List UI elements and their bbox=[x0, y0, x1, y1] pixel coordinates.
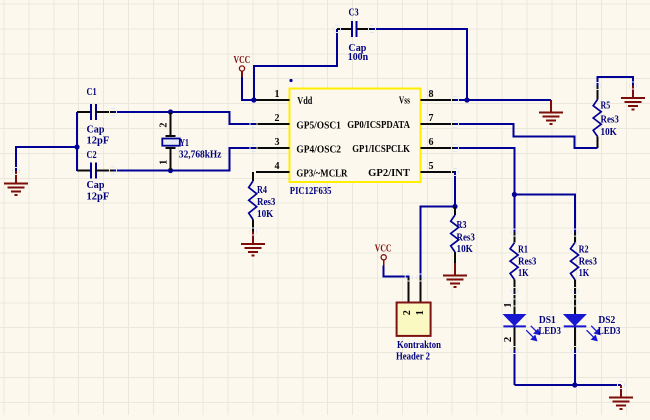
svg-text:1: 1 bbox=[415, 310, 426, 315]
svg-text:GP2/INT: GP2/INT bbox=[368, 168, 410, 179]
svg-text:Vss: Vss bbox=[399, 96, 410, 107]
power port VCC (top) bbox=[234, 55, 251, 77]
svg-text:LED3: LED3 bbox=[598, 326, 621, 337]
C3 left pin stub bbox=[337, 28, 351, 30]
ground (C1/C2 net) bbox=[16, 147, 77, 171]
IC pin 1 stub bbox=[257, 99, 290, 101]
svg-text:2: 2 bbox=[159, 123, 170, 128]
svg-text:2: 2 bbox=[275, 113, 280, 124]
svg-text:Y1: Y1 bbox=[180, 138, 189, 149]
svg-text:Header 2: Header 2 bbox=[396, 352, 430, 363]
wire C1 right stub bbox=[96, 111, 113, 113]
svg-text:Res3: Res3 bbox=[601, 115, 619, 126]
LED DS2 pins bbox=[574, 292, 576, 350]
wire DS2 column bbox=[574, 291, 576, 385]
svg-text:6: 6 bbox=[429, 137, 434, 148]
wire VCC to IC pin 1 bbox=[242, 77, 257, 100]
svg-text:1K: 1K bbox=[579, 268, 590, 279]
LED DS1 arrows bbox=[526, 326, 539, 341]
svg-text:R5: R5 bbox=[601, 101, 611, 112]
wire C2 right stub bbox=[96, 170, 113, 172]
IC pin 7 stub bbox=[421, 123, 455, 125]
R5 top pin bbox=[597, 86, 599, 100]
crystal Y1 body bbox=[162, 139, 180, 146]
svg-text:R3: R3 bbox=[457, 220, 467, 231]
R2 bottom pin bbox=[574, 280, 576, 292]
svg-text:Res3: Res3 bbox=[518, 257, 536, 268]
junction XTAL bottom bbox=[168, 168, 173, 173]
LED DS1 pins bbox=[513, 292, 515, 350]
svg-text:Res3: Res3 bbox=[579, 257, 597, 268]
svg-text:C3: C3 bbox=[349, 8, 359, 19]
svg-text:2: 2 bbox=[402, 310, 413, 315]
svg-text:1: 1 bbox=[159, 160, 170, 165]
R4 bottom pin bbox=[252, 220, 254, 232]
R2 top pin bbox=[574, 233, 576, 243]
R1 bottom pin bbox=[513, 280, 515, 292]
wire IC pin4 corner bbox=[252, 172, 254, 181]
power port VCC (header) bbox=[375, 244, 392, 266]
svg-text:GP3/~MCLR: GP3/~MCLR bbox=[296, 168, 348, 179]
IC pin 5 stub bbox=[421, 171, 455, 173]
resistor R3 bbox=[451, 215, 459, 252]
wire R5 top to ground bbox=[598, 77, 634, 86]
svg-text:4: 4 bbox=[275, 161, 280, 172]
wire to header pin1 bbox=[421, 207, 456, 278]
svg-text:Res3: Res3 bbox=[257, 197, 275, 208]
LED DS1 triangle bbox=[503, 314, 527, 326]
svg-text:R2: R2 bbox=[579, 245, 589, 256]
svg-text:C1: C1 bbox=[87, 87, 97, 98]
svg-text:5: 5 bbox=[429, 161, 434, 172]
wire C1/XTAL top row to IC pin 2 bbox=[113, 112, 256, 124]
wire C1 left stub bbox=[77, 111, 91, 113]
svg-text:3: 3 bbox=[275, 137, 280, 148]
svg-text:100n: 100n bbox=[348, 52, 369, 63]
resistor R2 bbox=[571, 243, 579, 280]
svg-text:GP5/OSC1: GP5/OSC1 bbox=[296, 120, 341, 131]
svg-text:GP4/OSC2: GP4/OSC2 bbox=[296, 144, 341, 155]
svg-text:DS2: DS2 bbox=[598, 315, 615, 326]
IC pin 3 stub bbox=[256, 147, 290, 149]
ground symbol GND3 bbox=[621, 86, 645, 110]
header P1 body bbox=[397, 303, 431, 336]
junction DS2/bottom bbox=[572, 382, 577, 387]
wire Vss to ground bbox=[455, 99, 552, 101]
LED DS2 arrows bbox=[587, 326, 600, 341]
wire C3 left branch bbox=[254, 29, 337, 100]
LED DS1 cathode bar bbox=[503, 325, 526, 327]
svg-text:10K: 10K bbox=[601, 127, 618, 138]
LED DS2 cathode bar bbox=[564, 325, 587, 327]
wire C2 left stub bbox=[77, 170, 91, 172]
junction pin5/R3/header bbox=[452, 204, 457, 209]
marker dot above IC bbox=[289, 79, 292, 82]
R3 bottom pin bbox=[454, 252, 456, 263]
R1 top pin bbox=[513, 233, 515, 243]
header pin stubs bbox=[409, 278, 421, 303]
svg-text:12pF: 12pF bbox=[87, 192, 110, 203]
svg-text:R1: R1 bbox=[518, 245, 528, 256]
svg-text:Res3: Res3 bbox=[457, 233, 475, 244]
svg-text:8: 8 bbox=[429, 89, 434, 100]
ground symbol GND4 bbox=[609, 385, 633, 409]
junction (77,147) bbox=[74, 144, 79, 149]
svg-text:PIC12F635: PIC12F635 bbox=[290, 186, 332, 197]
ground symbol GND6 bbox=[241, 232, 265, 256]
svg-text:10K: 10K bbox=[457, 244, 474, 255]
LED DS2 triangle bbox=[563, 314, 587, 326]
capacitor C1 bbox=[91, 104, 96, 120]
crystal Y1 pins bbox=[166, 112, 176, 171]
wire IC pin7 to R5 bbox=[455, 124, 598, 148]
resistor R1 bbox=[510, 243, 518, 280]
C3 right pin stub bbox=[358, 28, 373, 30]
svg-text:Cap: Cap bbox=[87, 180, 105, 191]
junction R1/R2 branch bbox=[512, 192, 517, 197]
wire branch to R2 bbox=[514, 195, 574, 233]
junction Vss/C3 bbox=[464, 97, 469, 102]
IC pin 4 stub bbox=[256, 171, 290, 173]
resistor R5 bbox=[593, 100, 601, 137]
resistor R4 bbox=[249, 181, 257, 220]
wire C1-C2 vertical bus bbox=[76, 112, 78, 171]
R3 top pin bbox=[454, 207, 456, 216]
IC pin 8 stub bbox=[421, 99, 455, 101]
svg-text:DS1: DS1 bbox=[539, 315, 556, 326]
wire VCC to header pin2 bbox=[384, 266, 409, 278]
svg-text:1K: 1K bbox=[518, 268, 529, 279]
wire C2/XTAL bottom row to IC pin 3 bbox=[113, 148, 256, 171]
svg-text:1: 1 bbox=[275, 89, 280, 100]
ground symbol GND1 bbox=[4, 171, 28, 195]
svg-text:C2: C2 bbox=[87, 150, 97, 161]
IC pin 2 stub bbox=[256, 123, 290, 125]
svg-text:Vdd: Vdd bbox=[297, 96, 312, 107]
svg-text:Kontrakton: Kontrakton bbox=[397, 340, 441, 351]
svg-text:Cap: Cap bbox=[87, 125, 105, 136]
svg-text:10K: 10K bbox=[257, 209, 274, 220]
wire IC pin5 to R3 bbox=[454, 172, 457, 207]
svg-text:12pF: 12pF bbox=[87, 136, 110, 147]
svg-text:2: 2 bbox=[502, 336, 514, 342]
junction XTAL top bbox=[168, 109, 173, 114]
capacitor C2 bbox=[91, 163, 96, 179]
svg-text:7: 7 bbox=[429, 113, 434, 124]
capacitor C3 bbox=[352, 21, 357, 37]
svg-text:LED3: LED3 bbox=[538, 326, 561, 337]
wire DS1 column bbox=[513, 291, 515, 385]
wire LED cathodes to ground bbox=[514, 384, 621, 386]
svg-text:1: 1 bbox=[502, 302, 514, 307]
svg-text:GP1/ICSPCLK: GP1/ICSPCLK bbox=[352, 144, 410, 155]
ground symbol GND5 bbox=[443, 263, 467, 287]
wire IC pin6 to R1/R2 bbox=[455, 148, 515, 233]
R5 bottom pin bbox=[597, 137, 599, 149]
IC PIC12F635 body bbox=[290, 89, 421, 183]
svg-text:VCC: VCC bbox=[234, 55, 251, 66]
wire C3 right branch to Vss net bbox=[372, 29, 467, 100]
svg-text:32,768kHz: 32,768kHz bbox=[179, 150, 222, 161]
svg-text:VCC: VCC bbox=[375, 244, 392, 255]
IC pin 6 stub bbox=[421, 147, 455, 149]
ground symbol GND2 bbox=[539, 100, 563, 124]
svg-text:R4: R4 bbox=[257, 185, 267, 196]
svg-text:GP0/ICSPDATA: GP0/ICSPDATA bbox=[347, 120, 410, 131]
junction pin1/C3 branch bbox=[251, 97, 256, 102]
